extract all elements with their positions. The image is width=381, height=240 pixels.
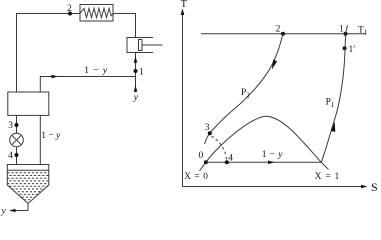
wire: liquid product draw-off	[11, 204, 29, 211]
svg-text:T: T	[181, 0, 187, 10]
arrow on liquid draw-off	[9, 209, 16, 213]
svg-text:1 − y: 1 − y	[262, 150, 283, 160]
heat exchanger (aftercooler) box	[80, 5, 113, 22]
heat exchanger zigzag coil	[80, 8, 113, 17]
baseline 0-4-X=1	[206, 161, 321, 163]
wire: compressor outlet to aftercooler (top right segment)	[113, 14, 136, 38]
P1 isobar curve (X=1 to 1)	[321, 25, 347, 162]
wire: separator vapour return (1-y)	[39, 115, 41, 164]
throttling dashed curve 3 to 4	[212, 136, 227, 160]
wire: suction line below compressor	[135, 53, 137, 93]
separator liquid hatch	[7, 173, 49, 200]
node 1	[134, 69, 138, 73]
svg-text:P1: P1	[326, 98, 335, 110]
arrow on P2 curve	[272, 60, 277, 70]
svg-text:X = 1: X = 1	[315, 172, 340, 182]
P2 isobar curve (2 to 3)	[205, 34, 284, 144]
isotherm T1 line	[201, 33, 366, 35]
svg-text:T1: T1	[358, 25, 368, 36]
node 3	[15, 123, 19, 127]
T axis	[182, 10, 184, 187]
wire: aftercooler to left downcomer (top left segment)	[17, 14, 81, 93]
svg-text:4: 4	[8, 151, 13, 161]
arrow on P1 curve	[331, 122, 335, 132]
svg-text:1: 1	[339, 24, 344, 34]
svg-text:P2: P2	[241, 88, 250, 100]
node 1 on diagram	[344, 32, 348, 36]
svg-text:2: 2	[276, 24, 281, 34]
separator vessel outline	[7, 165, 49, 204]
node 1' on diagram	[343, 46, 347, 50]
svg-text:1 − y: 1 − y	[84, 65, 108, 76]
svg-text:X = 0: X = 0	[184, 172, 208, 182]
svg-text:3: 3	[205, 123, 210, 133]
svg-text:0: 0	[199, 151, 204, 161]
node 2 on diagram	[281, 32, 285, 36]
svg-text:y: y	[1, 206, 7, 216]
node 4 (diagram)	[225, 160, 229, 164]
svg-text:2: 2	[67, 4, 72, 14]
node 2	[68, 12, 72, 16]
node 4	[15, 153, 19, 157]
throttle valve	[10, 133, 24, 147]
arrow on baseline (1-y)	[268, 161, 275, 165]
wire: 1-y return line to node 1	[40, 77, 135, 93]
arrow: make-up gas y flowing up	[134, 85, 138, 92]
compressor piston rod	[142, 44, 163, 46]
svg-text:S: S	[371, 180, 378, 194]
wire: heat exchanger to valve	[16, 115, 18, 164]
arrow on 1-y return line	[52, 75, 59, 79]
node 3 on diagram	[208, 131, 212, 135]
counterflow heat exchanger box	[8, 92, 49, 115]
arrow into compressor	[134, 56, 138, 63]
svg-text:1 − y: 1 − y	[41, 131, 61, 141]
node 0	[204, 160, 208, 164]
svg-text:4: 4	[228, 154, 233, 164]
svg-text:3: 3	[8, 121, 13, 131]
svg-text:1′: 1′	[349, 45, 356, 55]
svg-text:y: y	[133, 93, 139, 103]
separator liquid surface	[7, 169, 49, 171]
compressor piston	[139, 40, 143, 51]
svg-text:1: 1	[139, 68, 144, 78]
compressor cylinder U1	[127, 38, 153, 53]
S axis	[183, 186, 367, 188]
saturation dome	[200, 116, 329, 171]
